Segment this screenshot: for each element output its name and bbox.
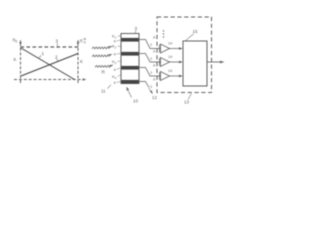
svg-text:K: K: [14, 57, 17, 62]
svg-text:3: 3: [135, 26, 138, 31]
svg-text:3: 3: [150, 71, 152, 75]
electrode band 1: [122, 38, 139, 42]
radiation wavy arrow 2: [92, 55, 109, 57]
svg-text:R: R: [102, 70, 106, 76]
electrode band 2: [122, 52, 139, 56]
svg-text:K3: K3: [112, 59, 117, 65]
wire amp2 to unit: [170, 61, 181, 63]
curve 1 (falling diagonal): [21, 48, 75, 80]
wire from band1 to amplifier 1: [139, 40, 161, 49]
svg-text:3: 3: [150, 85, 152, 89]
svg-text:2: 2: [55, 55, 58, 60]
svg-text:11: 11: [101, 89, 106, 94]
tiny speck label left of arrows: [84, 38, 86, 40]
amplifier triangle 1: [161, 44, 170, 53]
dashed processing box: [157, 17, 212, 93]
svg-text:3: 3: [56, 39, 59, 44]
amplifier triangle 3: [161, 72, 170, 81]
bottom dashed axis with right arrow: [14, 79, 83, 81]
curve 2 (rising diagonal): [21, 54, 78, 77]
svg-text:10: 10: [133, 99, 138, 104]
radiation wavy arrow 1: [92, 47, 109, 49]
svg-text:1: 1: [42, 51, 45, 56]
vertical ellipsis dots: [163, 30, 164, 31]
svg-text:K: K: [80, 59, 83, 64]
wire labels A/3 alternating: [150, 36, 156, 90]
top dashed line of graph: [21, 46, 79, 48]
wire from band4 (stub): [139, 82, 149, 88]
processing unit rectangle: [183, 41, 207, 86]
left graph: left axis (dashed vertical with arrow): [20, 43, 22, 83]
svg-text:K2: K2: [112, 44, 117, 50]
electrode band 4: [122, 80, 139, 84]
svg-text:14: 14: [168, 55, 172, 59]
svg-text:3: 3: [150, 57, 152, 61]
output wire with arrow: [207, 61, 221, 63]
detector column outline: [121, 34, 139, 84]
amplifier input bar 1: [159, 45, 161, 53]
svg-text:12: 12: [152, 95, 157, 100]
wire amp3 to unit: [170, 75, 181, 77]
svg-text:14: 14: [168, 42, 172, 46]
left graph: right axis (dashed vertical with arrow): [77, 43, 79, 83]
wire amp1 to unit: [170, 48, 181, 50]
svg-text:K4: K4: [112, 74, 117, 80]
amplifier input bar 3: [159, 72, 161, 80]
electrode band 3: [122, 66, 139, 70]
amplifier triangle 2: [161, 58, 170, 67]
wire from band3 to amplifier 3: [139, 68, 161, 77]
svg-text:13: 13: [184, 100, 189, 105]
svg-text:15: 15: [193, 29, 198, 34]
svg-text:3: 3: [150, 43, 152, 47]
wire from band2 to amplifier 2: [139, 54, 161, 63]
svg-text:14: 14: [168, 69, 172, 73]
amplifier input bar 2: [159, 58, 161, 66]
radiation wavy arrow 3: [95, 65, 111, 67]
